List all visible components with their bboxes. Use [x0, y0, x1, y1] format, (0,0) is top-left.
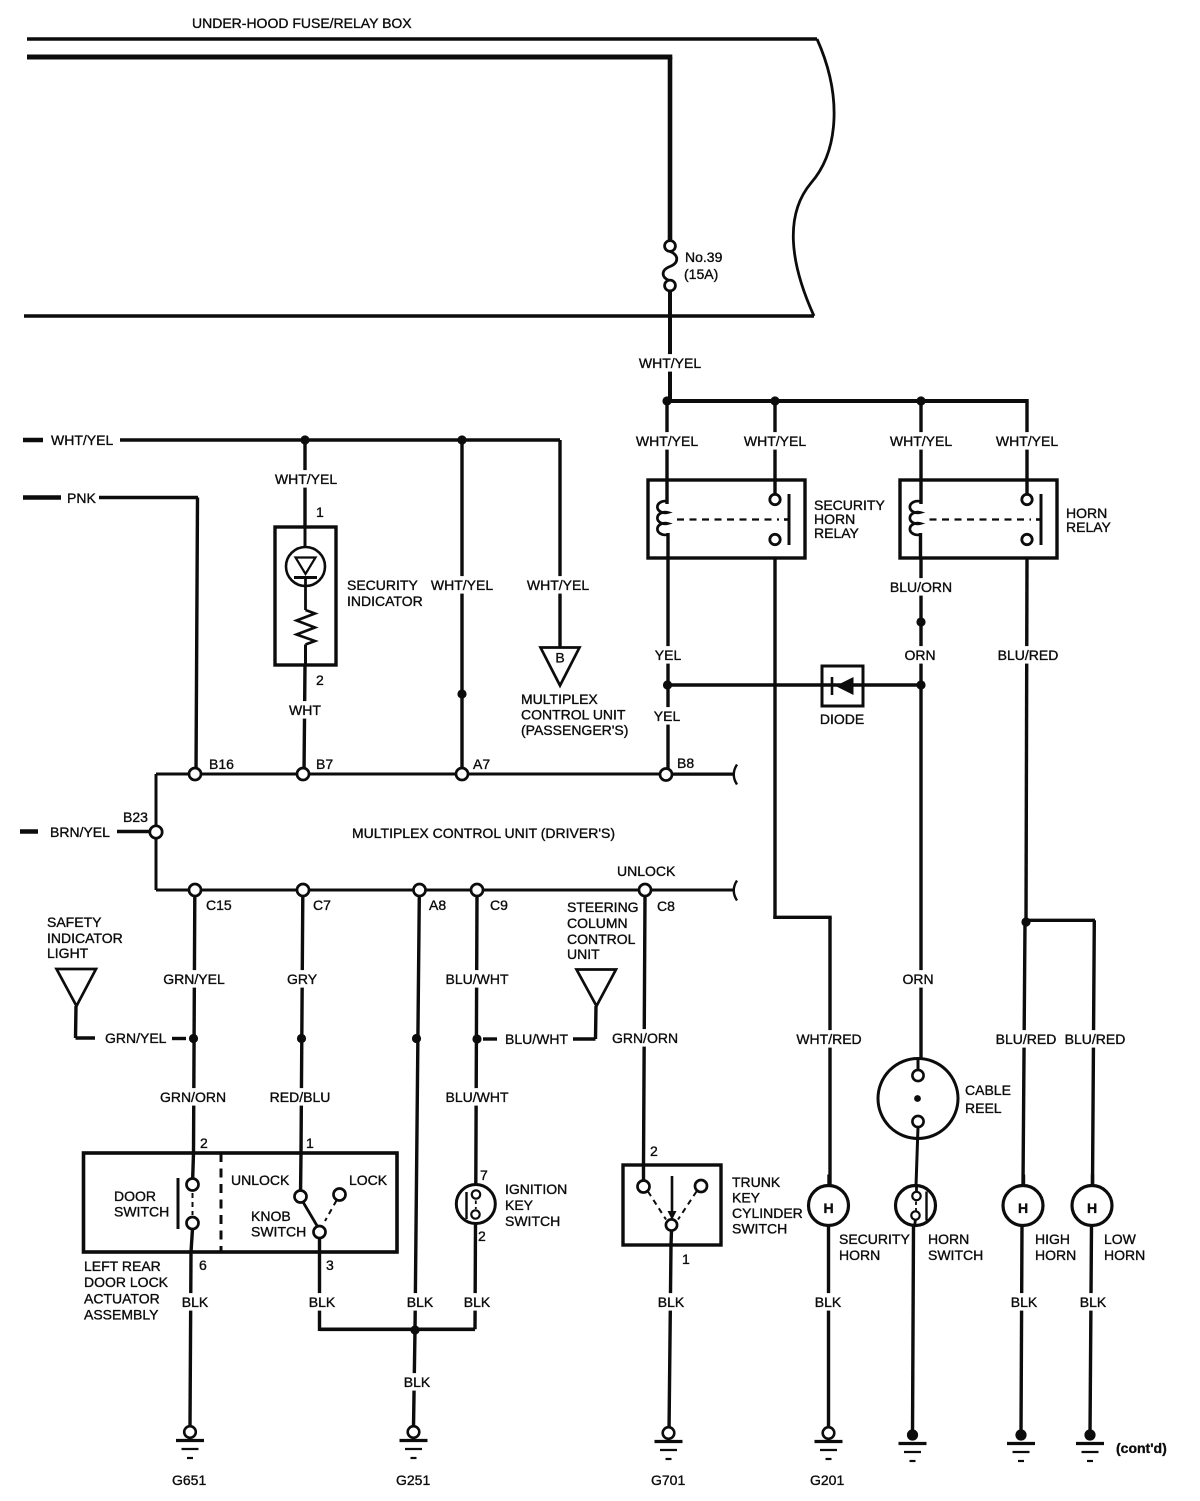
- svg-text:B23: B23: [123, 809, 148, 825]
- svg-text:GRN/ORN: GRN/ORN: [612, 1030, 678, 1046]
- svg-text:BLU/RED: BLU/RED: [996, 1031, 1057, 1047]
- svg-text:GRY: GRY: [287, 971, 318, 987]
- svg-text:3: 3: [326, 1257, 334, 1273]
- svg-text:SECURITY: SECURITY: [347, 577, 418, 593]
- svg-text:CONTROL UNIT: CONTROL UNIT: [521, 707, 626, 723]
- svg-text:BLK: BLK: [182, 1294, 209, 1310]
- svg-text:G251: G251: [396, 1472, 430, 1488]
- svg-text:KNOB: KNOB: [251, 1208, 291, 1224]
- svg-text:CONTROL: CONTROL: [567, 931, 636, 947]
- svg-text:GRN/YEL: GRN/YEL: [105, 1030, 167, 1046]
- svg-text:(cont'd): (cont'd): [1116, 1440, 1167, 1456]
- svg-text:MULTIPLEX CONTROL UNIT (DRIVER: MULTIPLEX CONTROL UNIT (DRIVER'S): [352, 825, 615, 841]
- svg-text:BLK: BLK: [658, 1294, 685, 1310]
- svg-text:LIGHT: LIGHT: [47, 945, 89, 961]
- svg-text:H: H: [823, 1200, 833, 1216]
- svg-text:ACTUATOR: ACTUATOR: [84, 1291, 160, 1307]
- svg-text:7: 7: [480, 1167, 488, 1183]
- svg-text:BLK: BLK: [407, 1294, 434, 1310]
- svg-text:PNK: PNK: [67, 490, 96, 506]
- svg-text:WHT: WHT: [289, 702, 321, 718]
- svg-text:G201: G201: [810, 1472, 844, 1488]
- svg-text:BLK: BLK: [815, 1294, 842, 1310]
- svg-text:HORN: HORN: [1035, 1247, 1076, 1263]
- svg-text:2: 2: [316, 672, 324, 688]
- svg-text:REEL: REEL: [965, 1100, 1002, 1116]
- svg-text:G701: G701: [651, 1472, 685, 1488]
- svg-text:B8: B8: [677, 755, 694, 771]
- svg-text:MULTIPLEX: MULTIPLEX: [521, 691, 598, 707]
- svg-text:WHT/YEL: WHT/YEL: [996, 433, 1058, 449]
- svg-text:BLU/WHT: BLU/WHT: [505, 1031, 568, 1047]
- svg-text:RELAY: RELAY: [814, 525, 860, 541]
- svg-text:H: H: [1018, 1200, 1028, 1216]
- svg-text:WHT/YEL: WHT/YEL: [744, 433, 806, 449]
- svg-text:RED/BLU: RED/BLU: [270, 1089, 331, 1105]
- svg-text:BRN/YEL: BRN/YEL: [50, 824, 110, 840]
- svg-text:INDICATOR: INDICATOR: [47, 930, 123, 946]
- svg-text:SWITCH: SWITCH: [114, 1204, 169, 1220]
- svg-text:GRN/YEL: GRN/YEL: [163, 971, 225, 987]
- svg-text:BLK: BLK: [309, 1294, 336, 1310]
- svg-text:UNLOCK: UNLOCK: [617, 863, 676, 879]
- svg-text:LEFT REAR: LEFT REAR: [84, 1258, 161, 1274]
- svg-text:2: 2: [650, 1143, 658, 1159]
- svg-text:DIODE: DIODE: [820, 711, 864, 727]
- svg-text:SECURITY: SECURITY: [839, 1231, 910, 1247]
- svg-text:ORN: ORN: [902, 971, 933, 987]
- svg-text:SAFETY: SAFETY: [47, 914, 102, 930]
- svg-text:UNIT: UNIT: [567, 946, 600, 962]
- svg-text:B16: B16: [209, 756, 234, 772]
- svg-text:IGNITION: IGNITION: [505, 1181, 567, 1197]
- svg-text:WHT/YEL: WHT/YEL: [275, 471, 337, 487]
- svg-text:INDICATOR: INDICATOR: [347, 593, 423, 609]
- svg-text:B: B: [555, 650, 564, 666]
- svg-text:WHT/RED: WHT/RED: [796, 1031, 861, 1047]
- svg-text:(PASSENGER'S): (PASSENGER'S): [521, 722, 628, 738]
- svg-text:YEL: YEL: [654, 708, 681, 724]
- svg-text:WHT/YEL: WHT/YEL: [890, 433, 952, 449]
- svg-text:WHT/YEL: WHT/YEL: [639, 355, 701, 371]
- svg-text:1: 1: [306, 1135, 314, 1151]
- svg-text:DOOR LOCK: DOOR LOCK: [84, 1274, 169, 1290]
- svg-text:A8: A8: [429, 897, 446, 913]
- svg-text:(15A): (15A): [684, 266, 718, 282]
- svg-text:C7: C7: [313, 897, 331, 913]
- svg-text:ASSEMBLY: ASSEMBLY: [84, 1307, 159, 1323]
- svg-text:TRUNK: TRUNK: [732, 1174, 781, 1190]
- svg-text:KEY: KEY: [505, 1197, 534, 1213]
- svg-text:GRN/ORN: GRN/ORN: [160, 1089, 226, 1105]
- svg-text:BLU/ORN: BLU/ORN: [890, 579, 952, 595]
- svg-text:HIGH: HIGH: [1035, 1231, 1070, 1247]
- svg-text:UNLOCK: UNLOCK: [231, 1172, 290, 1188]
- svg-text:SWITCH: SWITCH: [928, 1247, 983, 1263]
- svg-text:BLK: BLK: [404, 1374, 431, 1390]
- svg-text:HORN: HORN: [928, 1231, 969, 1247]
- svg-text:BLU/RED: BLU/RED: [1065, 1031, 1126, 1047]
- svg-text:ORN: ORN: [904, 647, 935, 663]
- svg-text:WHT/YEL: WHT/YEL: [51, 432, 113, 448]
- svg-text:B7: B7: [316, 756, 333, 772]
- svg-text:WHT/YEL: WHT/YEL: [527, 577, 589, 593]
- svg-text:BLU/WHT: BLU/WHT: [446, 971, 509, 987]
- svg-text:STEERING: STEERING: [567, 899, 639, 915]
- svg-text:KEY: KEY: [732, 1190, 761, 1206]
- svg-text:UNDER-HOOD FUSE/RELAY BOX: UNDER-HOOD FUSE/RELAY BOX: [192, 15, 412, 31]
- svg-text:No.39: No.39: [685, 249, 723, 265]
- svg-text:SWITCH: SWITCH: [251, 1224, 306, 1240]
- svg-text:BLK: BLK: [464, 1294, 491, 1310]
- svg-text:SWITCH: SWITCH: [505, 1213, 560, 1229]
- svg-text:2: 2: [200, 1135, 208, 1151]
- svg-text:HORN: HORN: [1104, 1247, 1145, 1263]
- svg-text:LOCK: LOCK: [349, 1172, 388, 1188]
- svg-text:RELAY: RELAY: [1066, 519, 1112, 535]
- svg-text:1: 1: [682, 1251, 690, 1267]
- svg-text:WHT/YEL: WHT/YEL: [636, 433, 698, 449]
- svg-text:1: 1: [316, 504, 324, 520]
- svg-text:2: 2: [478, 1228, 486, 1244]
- svg-text:LOW: LOW: [1104, 1231, 1137, 1247]
- svg-text:WHT/YEL: WHT/YEL: [431, 577, 493, 593]
- svg-text:H: H: [1087, 1200, 1097, 1216]
- svg-text:YEL: YEL: [655, 647, 682, 663]
- svg-text:DOOR: DOOR: [114, 1188, 156, 1204]
- svg-text:G651: G651: [172, 1472, 206, 1488]
- svg-text:BLK: BLK: [1011, 1294, 1038, 1310]
- svg-text:BLU/RED: BLU/RED: [998, 647, 1059, 663]
- svg-text:CYLINDER: CYLINDER: [732, 1205, 803, 1221]
- svg-text:CABLE: CABLE: [965, 1082, 1011, 1098]
- svg-text:C9: C9: [490, 897, 508, 913]
- svg-text:COLUMN: COLUMN: [567, 915, 628, 931]
- svg-text:A7: A7: [473, 756, 490, 772]
- svg-text:HORN: HORN: [839, 1247, 880, 1263]
- svg-text:C15: C15: [206, 897, 232, 913]
- svg-text:C8: C8: [657, 898, 675, 914]
- svg-text:6: 6: [199, 1257, 207, 1273]
- svg-text:BLK: BLK: [1080, 1294, 1107, 1310]
- svg-text:BLU/WHT: BLU/WHT: [446, 1089, 509, 1105]
- svg-text:SWITCH: SWITCH: [732, 1221, 787, 1237]
